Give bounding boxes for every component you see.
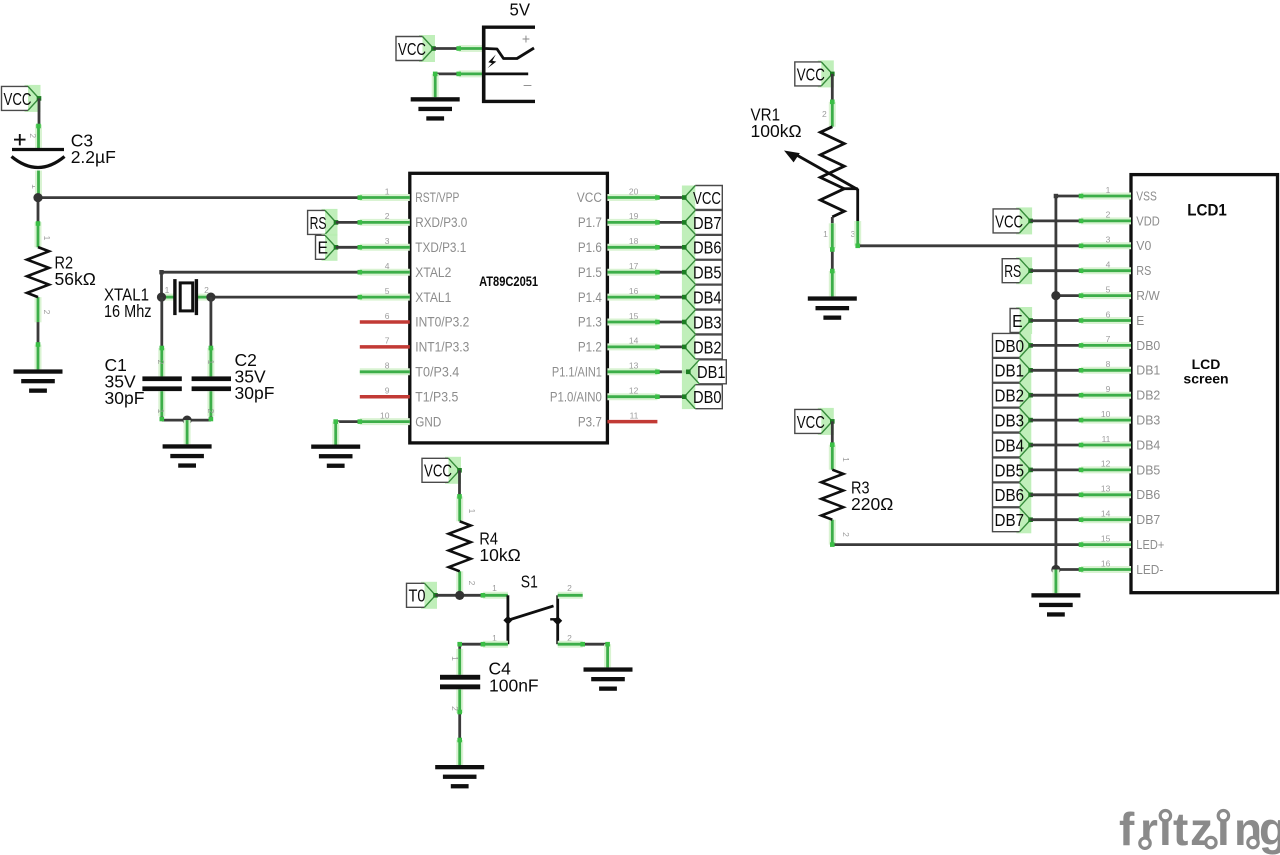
wires C1,C2 to ground junction <box>160 416 163 420</box>
svg-text:DB6: DB6 <box>693 238 722 258</box>
IC U1 pin 10 GND lead <box>360 418 410 425</box>
svg-text:VCC: VCC <box>398 39 426 59</box>
LCD1 pin 12 DB5 lead <box>1081 466 1131 473</box>
svg-text:VCC: VCC <box>693 188 721 208</box>
capacitor C1 leads <box>158 348 165 376</box>
potentiometer VR1 pin2 lead <box>829 102 836 127</box>
svg-text:16: 16 <box>629 286 639 296</box>
wire T0 to junction <box>436 594 460 597</box>
svg-text:+: + <box>522 31 530 47</box>
wire LED- to ground <box>1052 570 1059 594</box>
svg-text:P1.1/AIN1: P1.1/AIN1 <box>552 365 602 380</box>
ground symbol (VR1) <box>808 296 857 319</box>
net label DB2 (points left) <box>682 335 722 359</box>
svg-text:7: 7 <box>385 336 390 346</box>
wire VCC to R4 <box>458 470 461 498</box>
svg-text:P1.6: P1.6 <box>578 240 602 255</box>
net label RS (points right) <box>308 209 339 236</box>
IC U1 pin 7 INT1/P3.3 lead <box>360 345 410 349</box>
wire junction to RST/VPP <box>38 196 360 199</box>
ground symbol (C4) <box>435 765 484 788</box>
net label T0 (points right) <box>407 582 438 609</box>
svg-text:DB5: DB5 <box>1136 463 1160 477</box>
IC U1 pin 18 P1.6 lead <box>607 244 657 251</box>
wire pin row 5 to net label <box>657 321 684 324</box>
svg-text:INT1/P3.3: INT1/P3.3 <box>415 340 469 355</box>
svg-text:2: 2 <box>42 310 52 315</box>
LCD1 pin 4 RS lead <box>1081 267 1131 274</box>
LCD1 pin 16 LED- lead <box>1081 566 1131 573</box>
svg-text:DB3: DB3 <box>693 312 722 332</box>
svg-text:10: 10 <box>380 410 390 420</box>
svg-text:2: 2 <box>1106 210 1111 220</box>
svg-text:RS: RS <box>1004 261 1021 281</box>
svg-text:TXD/P3.1: TXD/P3.1 <box>415 240 466 255</box>
svg-text:T0/P3.4: T0/P3.4 <box>415 365 459 380</box>
svg-text:XTAL2: XTAL2 <box>415 265 451 280</box>
net label DB5 (points right) <box>993 458 1033 482</box>
svg-text:1: 1 <box>42 236 52 241</box>
capacitor C1 30pF <box>142 376 181 381</box>
wire VCC to R3 <box>831 421 834 446</box>
wire pin row 4 to net label <box>657 296 684 299</box>
svg-text:20: 20 <box>629 186 639 196</box>
svg-text:E: E <box>1012 311 1023 331</box>
svg-text:t: t <box>1173 803 1188 855</box>
battery J1 5V symbol <box>482 26 535 104</box>
LCD1 pin 7 DB0 lead <box>1081 342 1131 349</box>
svg-text:11: 11 <box>630 410 639 420</box>
svg-text:9: 9 <box>385 386 390 396</box>
svg-text:2.2µF: 2.2µF <box>71 147 116 167</box>
wire crystal to C1 <box>160 297 163 349</box>
fritzing logo <box>1119 803 1280 855</box>
net label DB0 (points left) <box>682 385 722 409</box>
svg-text:DB6: DB6 <box>995 485 1025 505</box>
svg-text:P1.3: P1.3 <box>578 315 602 330</box>
wire pin row 8 to net label <box>657 395 684 398</box>
net label DB0 (points right) <box>993 333 1033 357</box>
svg-text:P3.7: P3.7 <box>578 414 602 429</box>
LCD1 pin 14 DB7 lead <box>1081 516 1131 523</box>
LCD1 pin 1 VSS lead <box>1081 193 1131 200</box>
VR1 wiper arrow <box>784 151 858 190</box>
wire RS to pin 2 <box>336 221 360 224</box>
crystal Y1 leads <box>162 294 175 301</box>
junction R/W <box>1051 291 1060 300</box>
svg-text:RST/VPP: RST/VPP <box>415 190 459 205</box>
wire pin row 3 to net label <box>657 271 684 274</box>
net label VCC (points right) <box>795 60 835 87</box>
svg-text:2: 2 <box>156 360 166 365</box>
wire GND pin 10 to ground <box>336 420 360 423</box>
wire R3 to LCD LED+ <box>832 543 1081 546</box>
svg-text:19: 19 <box>629 211 639 221</box>
wire RS label to RS pin <box>1031 269 1081 272</box>
wire VCC label to VDD <box>1031 219 1081 222</box>
wire VCC to battery + <box>434 47 459 50</box>
wire VR1 pin1 to ground <box>831 248 834 272</box>
capacitor C2 30pF <box>192 376 231 381</box>
svg-text:7: 7 <box>1106 334 1111 344</box>
svg-text:LCD1: LCD1 <box>1187 200 1227 219</box>
svg-text:2: 2 <box>567 583 572 593</box>
VR1 pin3 stub <box>843 189 857 223</box>
IC U1 AT89C2051 body <box>410 173 608 443</box>
svg-text:VCC: VCC <box>995 211 1023 231</box>
switch S1 pin2 top lead <box>558 592 583 599</box>
svg-text:E: E <box>1136 314 1144 328</box>
capacitor C3 (polarized, 2.2uF) <box>12 134 65 168</box>
svg-text:DB2: DB2 <box>693 337 722 357</box>
svg-text:VCC: VCC <box>424 461 452 481</box>
svg-text:RXD/P3.0: RXD/P3.0 <box>415 215 467 230</box>
IC U1 pin 11 P3.7 lead <box>607 420 657 424</box>
svg-text:DB1: DB1 <box>995 361 1025 381</box>
switch S1 pin1 bottom lead <box>483 641 508 648</box>
bus wire VSS/RW/LED- <box>1055 196 1058 570</box>
svg-text:LCD: LCD <box>1192 356 1221 372</box>
LCD1 body <box>1131 175 1278 593</box>
svg-text:14: 14 <box>629 336 639 346</box>
svg-text:2: 2 <box>385 211 390 221</box>
svg-text:15: 15 <box>1101 533 1111 543</box>
svg-text:1: 1 <box>206 360 216 365</box>
LCD1 pin 9 DB2 lead <box>1081 392 1131 399</box>
svg-text:13: 13 <box>629 361 639 371</box>
net label DB1 (points right) <box>993 358 1033 382</box>
wire VCC to C3 <box>38 98 41 126</box>
svg-text:DB2: DB2 <box>995 386 1025 406</box>
svg-text:GND: GND <box>415 414 441 429</box>
net label VCC (points right) <box>422 457 462 484</box>
wire junction to S1 <box>460 594 485 597</box>
svg-text:DB4: DB4 <box>693 288 722 308</box>
resistor R3 leads <box>829 445 836 470</box>
wire DB1 label to pin <box>1031 369 1081 372</box>
svg-text:2: 2 <box>28 133 38 138</box>
wire S1 to ground <box>583 643 608 646</box>
svg-text:DB4: DB4 <box>1136 438 1160 452</box>
svg-text:1: 1 <box>841 457 851 462</box>
svg-text:V0: V0 <box>1136 239 1151 253</box>
capacitor C4 100nF <box>440 675 480 680</box>
highlight strip (IC right labels) <box>682 186 698 410</box>
svg-text:4: 4 <box>1106 260 1111 270</box>
svg-text:10: 10 <box>1101 409 1111 419</box>
LCD1 pin 10 DB3 lead <box>1081 417 1131 424</box>
svg-text:1: 1 <box>1106 185 1111 195</box>
svg-text:DB7: DB7 <box>995 510 1025 530</box>
svg-text:DB6: DB6 <box>1136 488 1160 502</box>
switch S1 symbol <box>503 595 562 644</box>
svg-text:DB7: DB7 <box>1136 513 1160 527</box>
net label E (points right) <box>1010 307 1033 334</box>
svg-text:3: 3 <box>385 236 390 246</box>
svg-text:30pF: 30pF <box>235 383 275 403</box>
svg-text:XTAL1: XTAL1 <box>415 290 451 305</box>
wire VR1 wiper to LCD V0 <box>858 244 1081 247</box>
svg-text:DB1: DB1 <box>697 362 726 382</box>
ground symbol (S1) <box>584 667 633 690</box>
svg-text:6: 6 <box>385 311 390 321</box>
wire pin row 6 to net label <box>657 345 684 348</box>
svg-text:1: 1 <box>450 656 460 661</box>
net label DB5 (points left) <box>682 260 722 284</box>
wire E label to E pin <box>1031 319 1081 322</box>
wire XTAL2 net <box>162 271 360 274</box>
svg-text:14: 14 <box>1101 509 1111 519</box>
svg-text:T0: T0 <box>409 586 426 606</box>
IC U1 pin 4 XTAL2 lead <box>360 269 410 276</box>
svg-text:6: 6 <box>1106 309 1111 319</box>
net label E (points right) <box>316 234 339 261</box>
net label DB3 (points left) <box>682 310 722 334</box>
wire DB7 label to pin <box>1031 518 1081 521</box>
net label DB1 (points left) <box>686 360 726 384</box>
svg-text:220Ω: 220Ω <box>851 494 893 514</box>
IC U1 pin 17 P1.5 lead <box>607 269 657 276</box>
svg-text:1: 1 <box>823 229 828 239</box>
junction LED- <box>1051 565 1060 574</box>
IC U1 pin 5 XTAL1 lead <box>360 294 410 301</box>
svg-text:15: 15 <box>629 311 639 321</box>
svg-text:8: 8 <box>1106 359 1111 369</box>
net label VCC (points right) <box>2 85 42 112</box>
LCD1 pin 11 DB4 lead <box>1081 442 1131 449</box>
IC U1 pin 20 VCC lead <box>607 194 657 201</box>
VR1 pin3 lead <box>854 221 861 246</box>
net label VCC (points left) <box>682 186 722 210</box>
wire endpoint markers <box>36 124 41 129</box>
wire S1 to C4 <box>460 643 485 646</box>
svg-text:DB2: DB2 <box>1136 389 1160 403</box>
crystal Y1 16MHz symbol <box>175 279 197 315</box>
svg-text:4: 4 <box>385 261 390 271</box>
svg-text:S1: S1 <box>521 572 538 592</box>
svg-text:5: 5 <box>385 286 390 296</box>
IC U1 pin 16 P1.4 lead <box>607 294 657 301</box>
capacitor C4 leads <box>456 649 463 675</box>
junction crystal pin1 <box>157 293 166 302</box>
svg-text:DB0: DB0 <box>1136 339 1160 353</box>
net label RS (points right) <box>1002 257 1033 284</box>
LCD1 pin 13 DB6 lead <box>1081 491 1131 498</box>
net label VCC (points right) <box>993 207 1033 234</box>
wire VCC to VR1 <box>831 74 834 103</box>
svg-text:DB5: DB5 <box>995 460 1025 480</box>
wire pin row 2 to net label <box>657 246 684 249</box>
LCD1 pin 5 R/W lead <box>1081 292 1131 299</box>
ground symbol (LCD) <box>1031 593 1080 616</box>
svg-text:LED-: LED- <box>1136 563 1163 577</box>
svg-text:DB0: DB0 <box>693 387 722 407</box>
svg-text:5V: 5V <box>510 0 531 20</box>
svg-text:P1.2: P1.2 <box>578 340 602 355</box>
net label DB6 (points right) <box>993 483 1033 507</box>
net label DB7 (points right) <box>993 508 1033 532</box>
svg-text:g: g <box>1259 803 1280 855</box>
wire DB4 label to pin <box>1031 444 1081 447</box>
net label VCC (points right) <box>795 408 835 435</box>
wire pin row 7 to net label <box>657 370 688 373</box>
svg-text:R/W: R/W <box>1136 289 1160 303</box>
IC U1 pin 1 RST/VPP lead <box>360 194 410 201</box>
switch S1 pin2 bottom lead <box>558 641 583 648</box>
wire R2 to ground <box>37 322 40 346</box>
junction C1/C2 ground <box>183 416 192 425</box>
svg-text:DB3: DB3 <box>995 411 1025 431</box>
wire battery - to ground <box>435 73 460 76</box>
LCD1 pin 3 V0 lead <box>1081 242 1131 249</box>
wire DB5 label to pin <box>1031 468 1081 471</box>
svg-text:DB1: DB1 <box>1136 364 1160 378</box>
highlight strip (LCD DB labels) <box>1016 334 1031 533</box>
svg-text:3: 3 <box>1106 235 1111 245</box>
svg-text:DB0: DB0 <box>995 336 1025 356</box>
wire DB0 label to pin <box>1031 344 1081 347</box>
junction T0/R4/S1 <box>455 591 464 600</box>
svg-text:VSS: VSS <box>1136 189 1157 203</box>
IC U1 pin 8 T0/P3.4 lead <box>360 368 410 375</box>
svg-text:RS: RS <box>310 213 327 233</box>
IC U1 pin 9 T1/P3.5 lead <box>360 395 410 399</box>
IC U1 pin 6 INT0/P3.2 lead <box>360 320 410 324</box>
battery + pin lead <box>459 45 484 52</box>
svg-text:–: – <box>524 76 532 92</box>
wire DB3 label to pin <box>1031 419 1081 422</box>
wire pin row 0 to net label <box>657 196 684 199</box>
ground symbol (battery) <box>411 97 460 120</box>
svg-text:1: 1 <box>156 409 166 414</box>
net label DB7 (points left) <box>682 210 722 234</box>
IC U1 pin 19 P1.7 lead <box>607 219 657 226</box>
svg-text:16 Mhz: 16 Mhz <box>104 301 152 321</box>
svg-text:VCC: VCC <box>4 89 32 109</box>
battery - pin lead <box>459 70 484 77</box>
wire crystal to C2 <box>209 297 212 349</box>
svg-text:2: 2 <box>467 581 477 586</box>
svg-text:DB5: DB5 <box>693 263 722 283</box>
svg-text:LED+: LED+ <box>1136 538 1164 552</box>
ground symbol (IC GND) <box>311 445 360 468</box>
resistor R3 (220) <box>821 470 843 520</box>
svg-text:11: 11 <box>1102 434 1111 444</box>
IC U1 pin 13 P1.1/AIN1 lead <box>607 368 657 375</box>
svg-text:DB3: DB3 <box>1136 414 1160 428</box>
svg-text:P1.5: P1.5 <box>578 265 602 280</box>
svg-text:RS: RS <box>1136 264 1151 278</box>
svg-text:f: f <box>1119 803 1135 855</box>
IC U1 pin 12 P1.0/AIN0 lead <box>607 393 657 400</box>
resistor R2 (56k) <box>27 247 49 297</box>
svg-text:18: 18 <box>629 236 639 246</box>
svg-text:DB4: DB4 <box>995 435 1025 455</box>
capacitor C3 pin 1 lead <box>35 171 42 196</box>
svg-text:1: 1 <box>467 509 477 514</box>
VR1 pin1 lead <box>831 217 834 223</box>
LCD1 pin 15 LED+ lead <box>1081 541 1131 548</box>
IC U1 pin 15 P1.3 lead <box>607 319 657 326</box>
LCD1 pin 2 VDD lead <box>1081 217 1131 224</box>
LCD1 pin 8 DB1 lead <box>1081 367 1131 374</box>
wire DB2 label to pin <box>1031 394 1081 397</box>
svg-text:VCC: VCC <box>797 64 825 84</box>
svg-text:10kΩ: 10kΩ <box>479 545 520 565</box>
svg-text:T1/P3.5: T1/P3.5 <box>415 389 458 404</box>
junction crystal pin2 <box>206 293 215 302</box>
potentiometer VR1 (100k) body <box>820 127 844 217</box>
svg-text:1: 1 <box>385 186 390 196</box>
resistor R4 leads <box>456 496 463 521</box>
ground symbol (R2) <box>14 369 63 392</box>
wire DB6 label to pin <box>1031 493 1081 496</box>
svg-text:2: 2 <box>841 532 851 537</box>
svg-text:5: 5 <box>1106 284 1111 294</box>
svg-text:VCC: VCC <box>797 412 825 432</box>
net label DB2 (points right) <box>993 383 1033 407</box>
svg-text:P1.0/AIN0: P1.0/AIN0 <box>550 389 602 404</box>
svg-text:VDD: VDD <box>1136 214 1160 228</box>
net label DB6 (points left) <box>682 235 722 259</box>
wire C3 to junction <box>37 194 40 198</box>
net label DB3 (points right) <box>993 408 1033 432</box>
wire XTAL1 net <box>211 296 360 299</box>
svg-text:P1.4: P1.4 <box>578 290 602 305</box>
svg-text:12: 12 <box>629 386 639 396</box>
capacitor C2 leads <box>207 348 214 376</box>
net label DB4 (points right) <box>993 433 1033 457</box>
wire junction to R2 <box>37 198 40 224</box>
svg-text:VCC: VCC <box>577 190 602 205</box>
svg-text:2: 2 <box>822 109 827 119</box>
svg-text:30pF: 30pF <box>105 388 145 408</box>
svg-text:1: 1 <box>165 285 170 295</box>
svg-text:9: 9 <box>1106 384 1111 394</box>
svg-text:100kΩ: 100kΩ <box>751 121 802 141</box>
svg-text:17: 17 <box>629 261 639 271</box>
svg-text:2: 2 <box>206 409 216 414</box>
svg-text:16: 16 <box>1101 558 1111 568</box>
svg-text:8: 8 <box>385 361 390 371</box>
wire C4 to ground <box>458 712 461 741</box>
LCD1 pin 6 E lead <box>1081 317 1131 324</box>
svg-text:56kΩ: 56kΩ <box>55 269 96 289</box>
wire pin row 1 to net label <box>657 221 684 224</box>
svg-text:E: E <box>318 238 329 258</box>
net label VCC (points right) <box>396 35 436 62</box>
svg-text:12: 12 <box>1101 459 1111 469</box>
svg-text:100nF: 100nF <box>489 676 539 696</box>
ground symbol (crystal caps) <box>163 444 212 467</box>
svg-text:13: 13 <box>1101 484 1111 494</box>
svg-text:DB7: DB7 <box>693 213 722 233</box>
IC U1 pin 3 TXD/P3.1 lead <box>360 244 410 251</box>
IC U1 pin 14 P1.2 lead <box>607 343 657 350</box>
net label DB4 (points left) <box>682 285 722 309</box>
capacitor C3 pin 2 lead <box>35 125 42 149</box>
ground lead (R2) <box>35 345 42 370</box>
svg-text:INT0/P3.2: INT0/P3.2 <box>415 315 469 330</box>
resistor R4 (10k) <box>449 521 471 571</box>
svg-text:P1.7: P1.7 <box>578 215 602 230</box>
switch S1 pin1 top lead <box>483 592 508 599</box>
svg-text:screen: screen <box>1183 371 1228 387</box>
svg-text:AT89C2051: AT89C2051 <box>479 274 538 289</box>
resistor R2 leads <box>35 222 42 247</box>
svg-text:1: 1 <box>492 583 497 593</box>
IC U1 pin 2 RXD/P3.0 lead <box>360 219 410 226</box>
